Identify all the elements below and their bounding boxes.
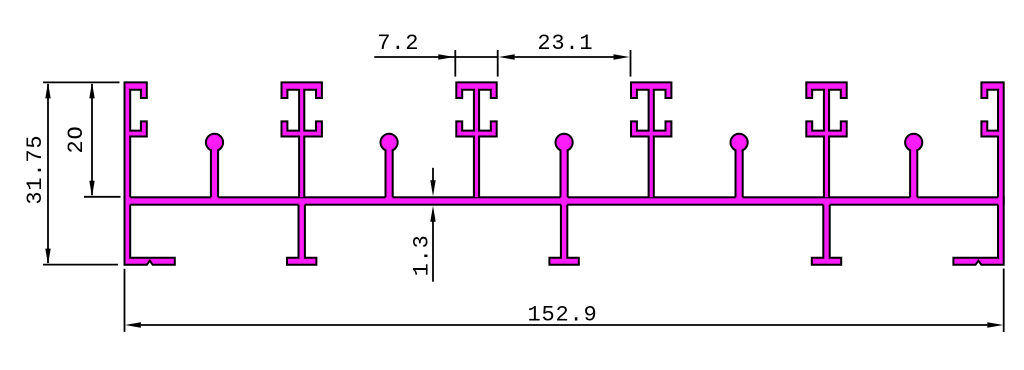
dimension line 20 with arrows	[89, 82, 94, 196]
T-shaped screw-port post 4 on top of web	[806, 82, 846, 197]
svg-text:1.3: 1.3	[410, 234, 435, 276]
round snap knob 4 on stem above web	[731, 134, 748, 203]
profile web (main horizontal wall)	[125, 197, 1004, 204]
svg-text:7.2: 7.2	[377, 31, 419, 56]
dimension line 23.1 with arrows	[499, 54, 630, 59]
dimension 20 extension line at web top	[84, 196, 121, 198]
svg-text:2O: 2O	[64, 125, 89, 153]
dimension 1.3 upper arrow line	[430, 168, 435, 197]
dimension line 152.9 with arrows	[125, 322, 1003, 327]
left end C-channel wall with bottom flange and notch	[125, 82, 175, 264]
right end C-channel wall with bottom flange and notch	[953, 82, 1003, 264]
round snap knob 3 on stem above web	[556, 134, 573, 203]
round snap knob 2 on stem above web	[381, 134, 398, 203]
dimension text 1.3	[410, 234, 435, 276]
svg-text:152.9: 152.9	[527, 302, 597, 327]
dimension 1.3 lower arrow line	[430, 206, 435, 282]
T-shaped bottom foot 3 below web	[812, 202, 841, 265]
dimension 7.2 leader line with arrow	[374, 54, 497, 59]
dimension text 23.1	[537, 31, 593, 56]
T-shaped bottom foot 2 below web	[549, 202, 578, 265]
dimension 7.2 extension line right	[497, 50, 499, 77]
round snap knob 1 on stem above web	[206, 134, 223, 203]
dimension 7.2 extension line left	[454, 50, 456, 77]
dimension 31.75 extension line bottom	[43, 264, 118, 266]
dimension text 152.9	[527, 302, 597, 327]
dimension 23.1 extension line right	[630, 50, 632, 77]
dimension text 7.2	[377, 31, 419, 56]
dimension text 20	[64, 125, 89, 153]
dimension text 31.75	[23, 135, 48, 205]
T-shaped screw-port post 3 on top of web	[631, 82, 671, 197]
svg-text:31.75: 31.75	[23, 135, 48, 205]
T-shaped screw-port post 2 on top of web	[456, 82, 496, 197]
dimension 152.9 extension line left	[124, 269, 126, 332]
dimension 31.75 extension line top	[43, 81, 120, 83]
dimension line 31.75 with arrows	[45, 82, 50, 264]
round snap knob 5 on stem above web	[905, 134, 922, 203]
T-shaped screw-port post 1 on top of web	[282, 82, 322, 197]
T-shaped bottom foot 1 below web	[287, 202, 316, 265]
dimension 152.9 extension line right	[1003, 269, 1005, 333]
svg-text:23.1: 23.1	[537, 31, 593, 56]
